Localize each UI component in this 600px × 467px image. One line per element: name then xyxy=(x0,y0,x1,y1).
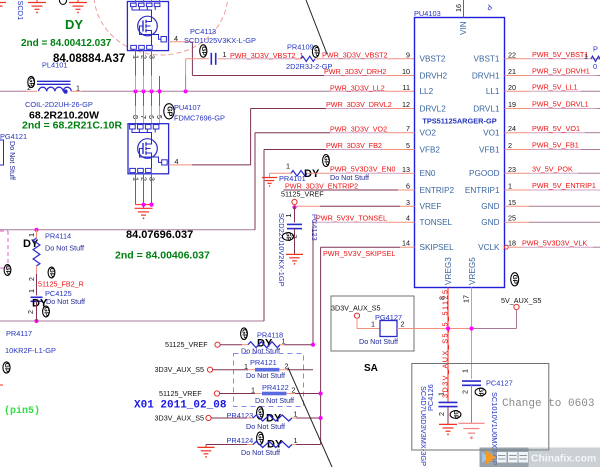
resistor PR4101 label xyxy=(279,174,306,183)
svg-text:FDMC7696-GP: FDMC7696-GP xyxy=(174,114,225,123)
svg-text:1: 1 xyxy=(437,392,446,396)
pin 1 (PR4114) xyxy=(27,233,36,237)
junction dot (VREF) xyxy=(292,205,296,209)
svg-text:VCLK: VCLK xyxy=(478,243,500,252)
svg-text:ENTRIP2: ENTRIP2 xyxy=(420,186,455,195)
pin 18 clock bubble xyxy=(504,245,508,249)
svg-text:PWR_3D3V_DRVL2: PWR_3D3V_DRVL2 xyxy=(326,100,392,109)
DY mark (PR4123) xyxy=(266,413,282,425)
pin 20 LL1 (right) xyxy=(486,83,516,96)
Do Not Stuff (PR4114) xyxy=(45,244,84,253)
wire PWR_5V_FB1 xyxy=(505,149,600,151)
pin 3 VREF (left) xyxy=(406,198,441,211)
pin 22 VBST1 (right) xyxy=(474,50,516,63)
junction dot (SKIPSEL/PR4123) xyxy=(319,416,323,420)
svg-text:GP: GP xyxy=(477,387,484,397)
svg-text:14: 14 xyxy=(402,239,410,248)
net label PWR_3D3V_LL2 xyxy=(330,84,385,93)
capacitor PC4127 xyxy=(462,381,481,385)
svg-text:51125_FB2_R: 51125_FB2_R xyxy=(38,280,84,289)
resistor PR4114 xyxy=(33,230,40,274)
svg-text:PWR_5V_DRVH1: PWR_5V_DRVH1 xyxy=(532,67,590,76)
wire lower MOSFET sources to ground xyxy=(136,173,152,205)
svg-text:24: 24 xyxy=(508,124,516,133)
pin 19 DRVL1 (right) xyxy=(473,100,516,113)
wire 5V_AUX_S5 flag down xyxy=(516,310,518,329)
net label PWR_5V3V_TONSEL xyxy=(316,214,387,223)
svg-text:GP: GP xyxy=(166,106,173,116)
pin 1 (PR4122) xyxy=(251,386,255,395)
annotation 2nd = 84.00406.037 xyxy=(115,250,210,262)
Do Not Stuff (PG4127) xyxy=(359,337,398,346)
Do Not Stuff (PC4125) xyxy=(46,297,85,306)
junction dot (VREG5 rail) xyxy=(469,326,473,330)
svg-text:GP: GP xyxy=(511,275,518,285)
net stub (left edge) xyxy=(0,384,3,386)
svg-text:51125_VREF: 51125_VREF xyxy=(159,389,202,398)
net flag 3D3V_AUX_S5 (PG4127) xyxy=(331,304,381,319)
svg-text:VBST2: VBST2 xyxy=(420,55,446,64)
pin number 16 xyxy=(454,4,463,12)
svg-text:PWR_5V_VBST1: PWR_5V_VBST1 xyxy=(532,50,588,59)
svg-text:GP: GP xyxy=(200,46,207,56)
part number SCD1... (cut off, vertical) xyxy=(16,1,25,21)
pin numbers 1 2 3 (top MOSFET source) xyxy=(132,55,157,59)
wire VREF flag to pin 3 xyxy=(295,205,415,208)
svg-text:10: 10 xyxy=(402,67,410,76)
net label 51125_FB2_R xyxy=(38,280,84,289)
svg-text:Do Not Stuff: Do Not Stuff xyxy=(359,337,398,346)
net label PWR_5V_DRVH1 xyxy=(532,67,590,76)
GP marker (right of IC) xyxy=(511,273,519,286)
wire PWR_5V_VO1 xyxy=(505,132,600,134)
svg-text:3D3V_AUX_S5_5_51125: 3D3V_AUX_S5_5_51125 xyxy=(441,289,450,399)
svg-text:17: 17 xyxy=(462,295,471,303)
GP marker (PR4117) xyxy=(3,362,10,373)
pin 16 VIN wire xyxy=(463,0,465,18)
net label PWR_3D3V_ENTRIP2 xyxy=(285,182,358,191)
resistor (top right, cut off) pin 1 xyxy=(584,52,588,61)
pin 4 TONSEL (left) xyxy=(406,214,453,227)
net label PWR_5V3V_SKIPSEL xyxy=(323,249,395,258)
svg-text:SCD1: SCD1 xyxy=(16,1,25,21)
svg-text:18: 18 xyxy=(508,239,516,248)
resistor PR4109 xyxy=(301,56,315,61)
annotation dashed ellipse highlight xyxy=(94,0,228,55)
pin 2 (coil left) xyxy=(27,83,31,92)
svg-text:PG4121: PG4121 xyxy=(0,132,27,141)
svg-text:P: P xyxy=(593,45,598,54)
svg-text:TPS51125ARGER-GP: TPS51125ARGER-GP xyxy=(422,117,496,126)
svg-text:2nd = 68.2R21C.10R: 2nd = 68.2R21C.10R xyxy=(22,120,123,132)
wire EN0 gnd jog xyxy=(270,173,292,177)
wire PWR_5V_LL1 xyxy=(505,90,600,92)
net flag 3D3V_AUX_S5 (PR4121) xyxy=(155,365,213,374)
svg-text:2: 2 xyxy=(27,277,36,281)
svg-text:1: 1 xyxy=(584,52,588,61)
svg-text:GND: GND xyxy=(481,218,499,227)
capacitor PC4127 part number (vertical) xyxy=(490,392,499,466)
pin 14 SKIPSEL (left) xyxy=(402,239,454,252)
svg-text:5: 5 xyxy=(406,141,410,150)
part PG4121 (cut off) xyxy=(0,140,4,165)
svg-text:1: 1 xyxy=(286,162,290,171)
svg-text:PR4114: PR4114 xyxy=(45,232,71,241)
svg-text:PR4123: PR4123 xyxy=(227,411,254,420)
annotation 2nd = 68.2R21C.10R xyxy=(22,120,123,132)
svg-text:GND: GND xyxy=(481,202,499,211)
svg-text:DRVH2: DRVH2 xyxy=(420,71,448,80)
annotation (pin5) xyxy=(4,405,40,417)
svg-text:GP: GP xyxy=(323,156,330,166)
svg-text:5V_AUX_S5: 5V_AUX_S5 xyxy=(501,296,541,305)
svg-text:GP: GP xyxy=(48,268,55,278)
GP marker (PC4123, rotated) xyxy=(282,232,293,242)
wire top MOSFET sources to LL2 xyxy=(136,49,160,91)
wire PC4127 to ground xyxy=(471,385,473,423)
wire DRVL2: lower gate to IC pin 12 xyxy=(169,109,415,165)
net label PWR_5V_ENTRIP1 xyxy=(532,181,596,190)
svg-text:11: 11 xyxy=(403,83,410,92)
svg-text:PWR_3D3V_LL2: PWR_3D3V_LL2 xyxy=(330,84,385,93)
svg-text:23: 23 xyxy=(508,165,516,174)
annotation 2nd = 84.00412.037 xyxy=(21,38,112,49)
ground (PC4127) xyxy=(458,423,484,439)
pin 1 (PC4113) xyxy=(223,50,227,59)
wire PWR_5V3D3V_VLK xyxy=(508,246,600,248)
wire TONSEL vertical to resistor ladder xyxy=(312,222,314,345)
svg-text:LL1: LL1 xyxy=(486,87,500,96)
wire GND pin 25 xyxy=(505,221,600,223)
pin name VREG3 (bottom) xyxy=(444,257,453,285)
pin 2 (PC4125) xyxy=(26,310,35,314)
pin 24 VO1 (right) xyxy=(483,124,516,137)
svg-text:PU4107: PU4107 xyxy=(174,103,201,112)
junction dot (SKIPSEL/PR4122) xyxy=(319,391,323,395)
net label PWR_3D3V_VO2 xyxy=(330,124,387,133)
svg-text:Do Not Stuff: Do Not Stuff xyxy=(8,141,17,180)
wire EN0 to IC pin 13 xyxy=(307,172,415,174)
resistor PR4109 value 2D2R3J-2-GP xyxy=(286,62,332,71)
net label PWR_5V3D3V_VLK xyxy=(522,238,587,247)
pin 4 (top MOSFET gate) xyxy=(174,34,178,43)
svg-text:LL2: LL2 xyxy=(420,87,434,96)
wire PWR_5V_DRVH1 xyxy=(505,75,600,77)
wire ENTRIP2 xyxy=(284,189,415,191)
net label PWR_5V_FB1 xyxy=(532,141,579,150)
svg-text:13: 13 xyxy=(402,165,410,174)
svg-text:3: 3 xyxy=(406,198,410,207)
svg-text:GP: GP xyxy=(241,329,248,339)
net flag 51125_VREF (PR4118) xyxy=(165,340,220,349)
svg-text:3V_5V_POK: 3V_5V_POK xyxy=(532,165,573,174)
svg-text:TONSEL: TONSEL xyxy=(420,218,453,227)
GP marker (PC4113) xyxy=(200,45,207,57)
svg-text:21: 21 xyxy=(508,67,516,76)
Do Not Stuff (PR4122) xyxy=(255,396,294,405)
GP marker (PR4101) xyxy=(323,155,330,167)
pin 2 VFB1 (right) xyxy=(479,141,512,154)
wire PR4114 to PC4125 xyxy=(36,274,38,295)
svg-text:VO1: VO1 xyxy=(483,129,500,138)
svg-text:GP: GP xyxy=(452,410,459,420)
resistor PR4109 label xyxy=(287,43,314,52)
svg-text:PWR_5V_VO1: PWR_5V_VO1 xyxy=(532,124,580,133)
inductor PL4101 (COIL-2D2UH-26-GP) xyxy=(37,81,71,94)
pin numbers 1 2 3 (lower MOSFET source) xyxy=(132,177,157,181)
pin 11 LL2 (left) xyxy=(403,83,434,96)
annotation X01 2011_02_08 xyxy=(134,400,227,412)
wire PWR_5V_DRVL1 xyxy=(505,108,600,110)
pin 23 PGOOD (right) xyxy=(469,165,516,178)
net label PWR_3D3V_VBST2 xyxy=(322,51,388,60)
pin 1 (PR4124) xyxy=(294,436,298,445)
DY mark (PR4118) xyxy=(257,338,273,350)
svg-text:EN0: EN0 xyxy=(420,169,436,178)
GP marker (PL4101) xyxy=(28,76,35,87)
svg-text:2: 2 xyxy=(401,320,405,329)
svg-text:84.07696.037: 84.07696.037 xyxy=(126,229,193,241)
pin 4 (lower MOSFET gate) xyxy=(175,157,179,166)
svg-text:0: 0 xyxy=(593,62,597,71)
svg-text:PWR_3D3V_DRH2: PWR_3D3V_DRH2 xyxy=(324,67,386,76)
callout line (top) xyxy=(306,0,327,54)
capacitor PC4125 label xyxy=(45,289,72,298)
ground (PC4123) xyxy=(286,254,303,264)
svg-text:SKIPSEL: SKIPSEL xyxy=(420,243,455,252)
svg-text:PGOOD: PGOOD xyxy=(469,169,500,178)
svg-text:PR4124: PR4124 xyxy=(227,436,254,445)
junction dot (TONSEL/PR4118) xyxy=(311,343,315,347)
svg-text:19: 19 xyxy=(508,100,516,109)
svg-text:51125_VREF: 51125_VREF xyxy=(281,190,324,199)
resistor PR4122 label xyxy=(262,383,289,392)
wire LL2 left segment (to coil pin 2) xyxy=(0,90,37,92)
svg-text:3D3V_AUX_S5: 3D3V_AUX_S5 xyxy=(155,365,205,374)
resistor (top right, cut off) xyxy=(591,45,600,72)
svg-text:2: 2 xyxy=(508,141,512,150)
svg-text:GP: GP xyxy=(43,307,50,317)
svg-text:PU4103: PU4103 xyxy=(414,9,441,18)
svg-text:DY: DY xyxy=(65,17,83,32)
svg-text:COIL-2D2UH-26-GP: COIL-2D2UH-26-GP xyxy=(25,100,93,109)
pin number 17 (VREG5) xyxy=(462,295,471,303)
svg-text:DY: DY xyxy=(304,168,320,180)
svg-text:3D3V_AUX_S5: 3D3V_AUX_S5 xyxy=(331,304,381,313)
svg-text:PWR_5V_FB1: PWR_5V_FB1 xyxy=(532,141,579,150)
resistor PR4101 xyxy=(291,171,307,177)
net label PWR_3D3V_DRVL2 xyxy=(326,100,392,109)
svg-text:2: 2 xyxy=(285,362,289,371)
svg-text:VO2: VO2 xyxy=(420,129,437,138)
GP marker (PU4107) xyxy=(164,104,174,119)
svg-text:Do Not Stuff: Do Not Stuff xyxy=(246,371,285,380)
box (PG4127 group) xyxy=(331,296,414,351)
svg-text:22: 22 xyxy=(508,50,516,59)
svg-text:SCD1U25V3KX-L-GP: SCD1U25V3KX-L-GP xyxy=(184,36,256,45)
svg-text:ENTRIP1: ENTRIP1 xyxy=(465,186,500,195)
svg-text:1: 1 xyxy=(294,410,298,419)
pin number 8 (VREG3) xyxy=(438,296,447,300)
net label 3V_5V_POK xyxy=(532,165,573,174)
net label PWR_3D3V_DRH2 xyxy=(324,67,386,76)
ground (top left 1) xyxy=(28,0,46,13)
svg-text:3D3V_AUX_S5: 3D3V_AUX_S5 xyxy=(155,414,205,423)
wire + resistor PR4124 xyxy=(206,442,321,448)
pin 2 (PC4127) xyxy=(461,390,470,394)
capacitor PC4125 xyxy=(31,297,43,301)
ground (lower MOSFET source) xyxy=(135,205,153,220)
pin 10 DRVH2 (left) xyxy=(402,67,448,80)
net label PWR_3D3V_VBST2_1 xyxy=(230,51,304,60)
pin 6 ENTRIP2 (left) xyxy=(406,182,455,195)
resistor PR4121 label xyxy=(250,358,277,367)
DY mark (PR4124) xyxy=(267,439,283,451)
svg-text:2: 2 xyxy=(26,310,35,314)
annotation 84.07696.037 xyxy=(126,229,193,241)
svg-text:Do Not Stuff: Do Not Stuff xyxy=(45,244,84,253)
pin 25 GND (right) xyxy=(481,214,516,227)
capacitor PC4123 ref (vertical) xyxy=(310,214,319,241)
svg-text:6: 6 xyxy=(406,182,410,191)
wire VREF to PC4123 xyxy=(294,206,296,222)
net flag 5V_AUX_S5 xyxy=(501,296,541,310)
wire 3V_5V_POK xyxy=(505,172,600,174)
wire LL2 to lower MOSFET drains xyxy=(136,91,160,124)
pin 2 (PR4121) xyxy=(285,362,289,371)
wire + resistor PR4122 xyxy=(220,392,321,396)
net label PWR_5V_VBST1 xyxy=(532,50,588,59)
svg-text:1: 1 xyxy=(27,289,36,293)
junction dot (PR4114 top) xyxy=(34,228,38,232)
svg-text:9: 9 xyxy=(406,50,410,59)
svg-text:VFB1: VFB1 xyxy=(479,145,500,154)
part value TPS51125ARGER-GP xyxy=(422,117,496,126)
svg-text:VBST1: VBST1 xyxy=(474,55,500,64)
wire VO2 long run xyxy=(0,133,415,230)
wire + resistor PR4123 xyxy=(211,415,321,421)
net label 3D3V_AUX_S5_5_51125 (vertical) xyxy=(441,289,450,399)
svg-text:Do Not Stuff: Do Not Stuff xyxy=(255,396,294,405)
svg-text:1: 1 xyxy=(371,320,375,329)
capacitor PC4127 ref xyxy=(486,379,513,388)
DY mark (PR4114) xyxy=(23,238,39,250)
net label PWR_5V_DRVL1 xyxy=(532,100,589,109)
svg-text:VREG5: VREG5 xyxy=(468,257,477,285)
wire TONSEL ladder corner xyxy=(0,0,1,1)
wire PWR_5V_VBST1 xyxy=(505,58,600,60)
annotation Change to 0603 xyxy=(502,398,594,410)
capacitor PC4123 xyxy=(287,224,302,228)
svg-text:1: 1 xyxy=(508,182,512,191)
junction dot (VREG3 rail) xyxy=(446,326,450,330)
svg-text:PC4113: PC4113 xyxy=(190,27,216,36)
svg-text:DRVL1: DRVL1 xyxy=(473,104,500,113)
svg-text:4: 4 xyxy=(406,214,410,223)
jumper PG4127 ref xyxy=(375,313,402,322)
part ref PR4117 xyxy=(6,329,32,338)
svg-text:GP: GP xyxy=(3,363,10,373)
svg-text:VREF: VREF xyxy=(420,202,442,211)
GP marker (PC4125) xyxy=(43,306,50,317)
watermark Chinafix xyxy=(480,448,600,467)
svg-text:PWR_5V_ENTRIP1: PWR_5V_ENTRIP1 xyxy=(532,181,596,190)
svg-text:(pin5): (pin5) xyxy=(4,405,40,417)
inductor PL4101 label xyxy=(42,61,67,70)
part ref PG4121 xyxy=(0,132,27,141)
net flag 51125_VREF xyxy=(281,190,324,205)
resistor PR4114 label xyxy=(45,232,71,241)
wire flag to PG4127 xyxy=(357,318,380,328)
wire VBST2 left (cap to LL2) xyxy=(186,59,209,92)
pin 13 EN0 (left) xyxy=(402,165,436,178)
wire TONSEL xyxy=(313,221,415,223)
net flag 51125_VREF (PR4122) xyxy=(159,389,220,398)
svg-text:15: 15 xyxy=(508,198,516,207)
pin 7 VO2 (left) xyxy=(406,124,436,137)
svg-text:PWR_5V3V_TONSEL: PWR_5V3V_TONSEL xyxy=(316,214,387,223)
svg-text:Change to 0603: Change to 0603 xyxy=(502,398,594,410)
pin 1 (PR4121) xyxy=(244,362,248,371)
pin 5 VFB2 (left) xyxy=(406,141,440,154)
wire VREG3 rail xyxy=(447,288,449,403)
pin 1 (PR4101) xyxy=(286,162,290,171)
svg-text:10KR2F-L1-GP: 10KR2F-L1-GP xyxy=(5,346,56,355)
net label PWR_5V3D3V_EN0 xyxy=(330,165,396,174)
pin 15 GND (right) xyxy=(481,198,516,211)
GP marker (PR4124) xyxy=(257,432,264,444)
wire VFB2 long run xyxy=(0,150,415,322)
GP marker (PR4114 a) xyxy=(4,265,11,276)
GP marker (PR4118) xyxy=(241,328,248,340)
svg-text:DRVL2: DRVL2 xyxy=(420,104,447,113)
svg-text:PR4121: PR4121 xyxy=(250,358,277,367)
svg-text:X01 2011_02_08: X01 2011_02_08 xyxy=(134,400,227,412)
svg-text:PR4122: PR4122 xyxy=(262,383,289,392)
svg-text:SA: SA xyxy=(364,363,378,374)
Do Not Stuff (PR4124) xyxy=(241,448,280,457)
GP marker (PR4123) xyxy=(257,407,264,419)
pin 1 (PC4127) xyxy=(461,369,470,373)
svg-text:2: 2 xyxy=(437,412,446,416)
svg-text:PL4101: PL4101 xyxy=(42,61,67,70)
part ref PU4107 xyxy=(174,103,201,112)
op-amp/controller U PU4103 box xyxy=(415,18,505,288)
part value 10KR2F-L1-GP xyxy=(5,346,56,355)
wire PWR_5V_ENTRIP1 xyxy=(505,189,600,191)
svg-text:VREG3: VREG3 xyxy=(444,257,453,285)
DY mark (PC4125) xyxy=(32,298,48,310)
svg-text:PWR_5V3D3V_EN0: PWR_5V3D3V_EN0 xyxy=(330,165,396,174)
pin name VREG5 (bottom) xyxy=(468,257,477,285)
svg-text:Do Not Stuff: Do Not Stuff xyxy=(241,347,280,356)
GP marker (PC4127, rotated) xyxy=(475,387,486,397)
annotation 84.08884.A37 xyxy=(53,53,125,65)
jumper PG4127 xyxy=(380,321,397,337)
ground (top left 2) xyxy=(69,0,87,13)
part ref PU4103 xyxy=(414,9,441,18)
wire PC4126 to ground xyxy=(447,407,449,425)
capacitor PC4126 ref (vertical) xyxy=(426,384,435,411)
junction dots (source-gnd bus) xyxy=(141,203,153,207)
wire LL2 main run xyxy=(71,90,415,92)
wire VREG5 rail xyxy=(471,288,473,379)
pin name VIN xyxy=(459,21,468,35)
pin 2 (PR4114) xyxy=(27,277,36,281)
pin 1 (PR4123) xyxy=(294,410,298,419)
capacitor PC4123 part number (vertical) xyxy=(277,213,286,287)
Do Not Stuff (PR4101) xyxy=(330,173,369,182)
